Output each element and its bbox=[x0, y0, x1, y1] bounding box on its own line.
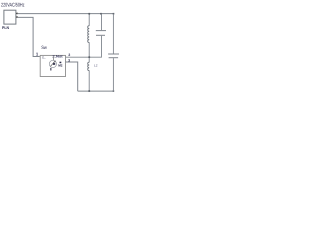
terminal tick L bbox=[16, 13, 18, 14]
capacitor C1 top lead bbox=[100, 14, 102, 31]
inductor branch vertical bottom segment bbox=[88, 70, 90, 91]
svg-text:G,.: G,. bbox=[42, 55, 46, 59]
junction dot bottom rail / inductor bbox=[88, 90, 90, 92]
svg-text:Sw: Sw bbox=[41, 45, 47, 51]
junction dot top rail / inductor bbox=[88, 13, 90, 15]
gate stub below circle bbox=[50, 68, 51, 71]
AC source box bbox=[4, 10, 16, 24]
corner dot top rail / C2 bbox=[113, 13, 115, 15]
dark square inside box bbox=[60, 62, 62, 64]
triac arrow bbox=[51, 62, 55, 67]
inductor L2 (lower winding) bbox=[88, 62, 90, 70]
corner dot bottom rail / C2 bbox=[113, 90, 115, 92]
capacitor C1 plates bbox=[96, 30, 106, 32]
inductor branch vertical top segment bbox=[88, 14, 90, 26]
svg-text:PLN: PLN bbox=[2, 26, 9, 30]
wire: dimmer out3 down to bottom rail bbox=[66, 62, 78, 91]
junction dot tap bbox=[88, 56, 90, 58]
wire: N terminal to dimmer input bbox=[18, 17, 40, 56]
svg-text:2.Nst: 2.Nst bbox=[52, 54, 63, 58]
svg-text:M2: M2 bbox=[58, 64, 63, 68]
capacitor C2 plates bbox=[108, 53, 119, 55]
capacitor C2 top lead bbox=[112, 14, 114, 54]
wire: dimmer out2 to inductor tap and C1 bottom bbox=[66, 36, 102, 57]
wire: top rail bbox=[18, 13, 114, 15]
triac circle bbox=[49, 60, 56, 67]
svg-text:L2: L2 bbox=[94, 64, 98, 68]
dimmer box U1 bbox=[40, 55, 65, 76]
terminal tick N bbox=[16, 16, 18, 17]
inductor branch vertical mid segment bbox=[88, 42, 90, 62]
lead from circle top bbox=[52, 57, 54, 61]
junction dot top rail / C1 bbox=[100, 13, 102, 15]
svg-text:2: 2 bbox=[68, 53, 70, 57]
capacitor C2 bottom lead bbox=[112, 58, 114, 91]
svg-text:220VAC/50Hz: 220VAC/50Hz bbox=[1, 3, 25, 9]
inductor L1 (upper winding) bbox=[88, 26, 90, 43]
dark dot inside circle bbox=[53, 63, 55, 65]
wire: bottom rail bbox=[78, 90, 114, 92]
